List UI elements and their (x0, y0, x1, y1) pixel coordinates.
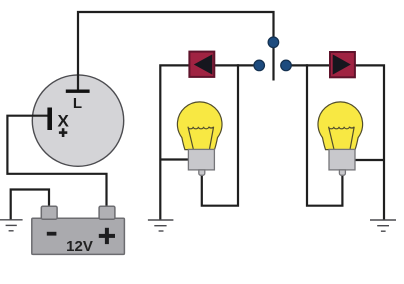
ground left lamp (148, 220, 174, 231)
wire left lamp tip loop to switch-left node (202, 64, 238, 205)
switch node top (pole) (268, 37, 279, 48)
battery minus symbol (47, 232, 57, 236)
battery plus symbol (99, 228, 115, 244)
wire right lamp tip loop to switch-right node (307, 64, 342, 205)
wire switch right contact to right arrow (286, 64, 330, 66)
filament right (329, 127, 355, 149)
bulb glass left (177, 102, 222, 150)
flasher terminal X bar (47, 108, 52, 131)
indicator arrow left (square) (189, 52, 214, 77)
lamp right (bulb) (318, 102, 363, 175)
lamp base left (188, 149, 214, 170)
lamp tip right (339, 170, 345, 175)
wire battery minus to ground (11, 190, 49, 220)
ground right lamp (370, 220, 396, 231)
svg-text:12V: 12V (66, 238, 93, 255)
battery body (32, 218, 125, 254)
wire right arrow to right ground (355, 65, 384, 219)
lamp tip left (199, 170, 205, 175)
battery terminal plus tab (99, 206, 115, 219)
lamp left (bulb) (177, 102, 222, 175)
flasher terminal L bar (66, 90, 90, 93)
indicator arrow left triangle (194, 54, 213, 74)
svg-text:X: X (58, 111, 70, 130)
indicator arrow right triangle (333, 54, 351, 74)
flasher relay body (32, 75, 123, 166)
switch node right contact (281, 60, 292, 71)
wire switch pole arm (open) (272, 42, 274, 81)
wire left arrow to ground (left lamp ground branch) (160, 65, 189, 219)
wire flasher X terminal to battery plus (7, 116, 106, 207)
wire branch to right lamp base (354, 159, 384, 161)
ground battery (far left) (0, 220, 23, 231)
wire switch left contact to left arrow (215, 64, 259, 66)
switch node left contact (254, 60, 265, 71)
label plus (flasher) (59, 128, 67, 137)
bulb glass right (318, 102, 363, 150)
svg-text:L: L (73, 95, 82, 112)
lamp base right (329, 149, 355, 170)
battery terminal minus tab (41, 206, 57, 219)
wire L terminal to switch pole (top wire) (78, 12, 274, 91)
wire branch to left lamp base (160, 158, 189, 160)
indicator arrow right (square) (330, 52, 355, 77)
filament left (188, 127, 214, 149)
